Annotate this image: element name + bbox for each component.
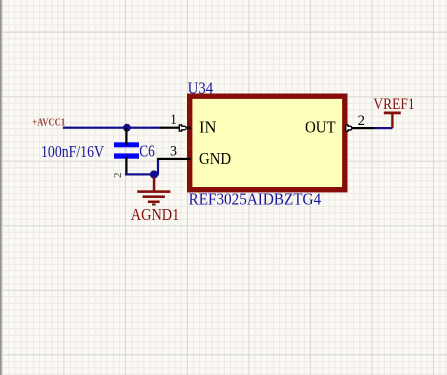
svg-text:REF3025AIDBZTG4: REF3025AIDBZTG4: [189, 189, 322, 208]
ground bar 2: [143, 195, 165, 198]
capacitor C6 bottom plate: [114, 153, 139, 158]
pin 3 lead of U34 (GND pin, black): [157, 158, 191, 160]
svg-text:IN: IN: [199, 118, 216, 137]
ground bar 1: [137, 190, 170, 193]
capacitor C6 top plate: [114, 142, 139, 147]
svg-text:1: 1: [170, 112, 177, 128]
ground bar 3: [148, 201, 160, 204]
wire OUT to VREF power port (blue segment): [375, 127, 392, 129]
power port VREF1 bar: [384, 112, 401, 115]
svg-text:AGND1: AGND1: [131, 205, 180, 224]
pin 3 stub into border: [187, 158, 191, 160]
svg-text:2: 2: [112, 173, 124, 179]
svg-text:C6: C6: [139, 142, 155, 161]
svg-text:VREF1: VREF1: [373, 96, 414, 113]
junction dot at AVCC/C6 node: [123, 124, 131, 132]
svg-text:3: 3: [170, 144, 177, 160]
svg-text:2: 2: [358, 113, 365, 129]
pin 1 input arrow glyph: [179, 125, 187, 131]
ground stub AGND: [153, 177, 156, 191]
svg-text:100nF/16V: 100nF/16V: [41, 142, 104, 161]
pin 2 output arrow glyph: [346, 125, 353, 131]
pin 1 stub into border: [187, 127, 191, 129]
svg-text:OUT: OUT: [305, 118, 336, 137]
svg-text:GND: GND: [199, 149, 231, 168]
wire C6 bottom to ground junction: [125, 173, 159, 175]
svg-text:U34: U34: [188, 79, 214, 98]
pin 1 lead of U34 (black segment): [160, 127, 181, 129]
junction dot at ground node: [150, 170, 158, 178]
power port VREF1 stub: [391, 113, 393, 128]
wire +AVCC to junction (blue segment): [63, 127, 160, 129]
sheet left edge: [0, 0, 2, 375]
svg-text:+AVCC1: +AVCC1: [32, 118, 65, 129]
IC U34 REF3025AIDBZTG4 body: [190, 96, 345, 190]
capacitor C6 top lead: [125, 128, 127, 145]
capacitor C6 bottom lead: [125, 157, 127, 174]
wire from GND pin corner down to junction: [157, 158, 159, 174]
pin 2 lead of U34 (black segment): [351, 127, 375, 129]
ground bar 4: [152, 203, 156, 205]
